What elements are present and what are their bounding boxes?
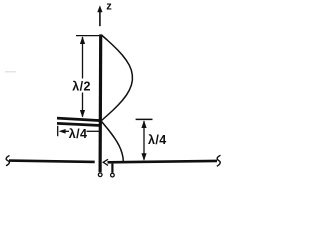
svg-text:λ/4: λ/4	[69, 127, 88, 141]
svg-text:λ/2: λ/2	[72, 80, 91, 94]
svg-text:λ/4: λ/4	[148, 133, 167, 147]
svg-text:z: z	[106, 1, 112, 13]
